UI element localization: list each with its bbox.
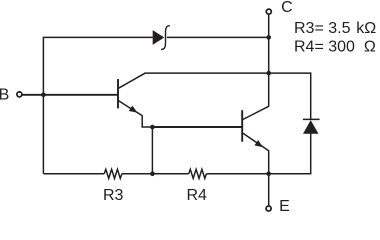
terminal C open circle	[266, 9, 271, 14]
transistor Q2 emitter arrowhead	[254, 140, 263, 147]
resistor R3 zigzag	[104, 169, 122, 178]
transistor Q2 base bar	[241, 110, 243, 142]
diode D1 (speed-up diode on top rail) triangle	[153, 30, 165, 45]
svg-text:R3= 3.5 kΩ: R3= 3.5 kΩ	[294, 20, 376, 37]
svg-text:C: C	[281, 0, 293, 16]
diode D2 (right branch) cathode bar	[303, 118, 320, 120]
wire: vertical drop to bottom rail	[151, 127, 153, 174]
svg-text:R4= 300 Ω: R4= 300 Ω	[294, 38, 376, 55]
svg-text:R3: R3	[103, 187, 124, 204]
transistor Q1 collector diagonal	[119, 73, 145, 88]
wire: C vertical (terminal C down to Q2 collector corner)	[268, 15, 270, 107]
wire: base wire B to Q1 (thick)	[22, 94, 117, 96]
node: junction bottom rail x E vertical	[266, 172, 271, 177]
node: junction emitter wire x R3 drop	[150, 125, 155, 130]
wire: bottom rail left segment	[43, 173, 104, 175]
node: junction B wire x left rail	[41, 93, 46, 98]
wire: base wire to Q2 (thick)	[152, 126, 241, 128]
svg-text:R4: R4	[187, 187, 208, 204]
wire: Q1 collector rail (y=73)	[144, 72, 268, 74]
terminal E open circle	[266, 206, 271, 211]
wire: top rail right segment (D1 cathode to C vertical)	[167, 36, 269, 38]
resistor R4 zigzag	[189, 169, 207, 178]
wire: Q2 emitter down to terminal E	[268, 150, 270, 205]
transistor Q2 emitter diagonal	[243, 133, 269, 151]
transistor Q1 base bar	[117, 79, 119, 108]
node: junction top rail x C vertical	[266, 35, 271, 40]
wire: R4 to E junction	[206, 173, 268, 175]
node: junction bottom rail x drop from Q1 emitter	[150, 172, 155, 177]
diode D1 curved cathode (integral-shaped bar)	[161, 26, 170, 50]
terminal B open circle	[17, 92, 22, 97]
wire: between R3 and R4	[122, 173, 189, 175]
svg-text:E: E	[279, 198, 290, 214]
wire: top rail left segment (left rail corner to diode D1 anode)	[43, 37, 152, 173]
transistor Q2 collector diagonal	[243, 106, 269, 119]
svg-text:B: B	[0, 87, 9, 104]
wire: Q1 emitter drop to base rail of Q2	[142, 116, 152, 128]
wire: branch to right diode (top)	[269, 73, 311, 119]
node: junction collector rail x C vertical	[266, 71, 271, 76]
diode D2 triangle (pointing up)	[303, 120, 319, 134]
transistor Q1 emitter arrowhead	[129, 106, 138, 113]
wire: D2 to bottom right corner	[269, 133, 311, 174]
transistor Q1 emitter diagonal	[119, 101, 143, 116]
